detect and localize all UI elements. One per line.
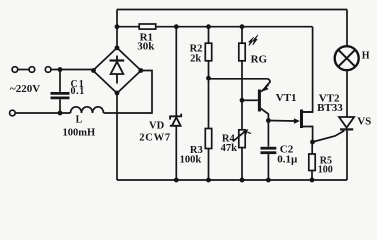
label VT1 bbox=[276, 92, 297, 104]
wire: bridge top to top rail bbox=[116, 10, 118, 48]
unijunction transistor VT2 bbox=[300, 110, 313, 143]
svg-text:BT33: BT33 bbox=[317, 102, 343, 114]
node: bridge left corner bbox=[91, 68, 96, 73]
svg-text:100k: 100k bbox=[180, 154, 202, 165]
node: R5 bottom junction bbox=[310, 178, 315, 183]
svg-text:0.1µ: 0.1µ bbox=[277, 153, 298, 165]
node: R2 top junction bbox=[206, 24, 211, 29]
label R5 value bbox=[318, 156, 333, 176]
wire: R1 regulated row bbox=[117, 26, 313, 28]
capacitor C2 bbox=[261, 148, 277, 180]
wire: upper AC input to bridge left corner bbox=[51, 69, 94, 71]
label L value bbox=[63, 115, 96, 139]
potentiometer R4 bbox=[239, 130, 245, 148]
wire: bridge bottom to ground rail bbox=[116, 93, 118, 180]
svg-text:VD: VD bbox=[149, 120, 165, 131]
photoresistor RG bbox=[239, 43, 245, 61]
svg-text:RG: RG bbox=[251, 54, 268, 66]
node: R4 bottom junction bbox=[240, 178, 245, 183]
resistor R3 bbox=[205, 129, 211, 149]
resistor R2 bbox=[205, 43, 211, 61]
node: R1 left junction on row bbox=[115, 24, 120, 29]
wire: row down to VT2 base B2 bbox=[302, 27, 313, 112]
lower AC terminal circle bbox=[10, 110, 16, 116]
label C1 value bbox=[71, 79, 85, 97]
svg-text:100: 100 bbox=[318, 164, 333, 175]
wire: RG/R4 branch vertical bbox=[241, 27, 243, 180]
svg-text:47k: 47k bbox=[221, 143, 238, 154]
VT2 emitter arrowhead bbox=[294, 118, 300, 123]
node: RG top junction bbox=[240, 24, 245, 29]
label H bbox=[362, 50, 370, 61]
svg-text:VS: VS bbox=[357, 115, 371, 127]
node: C1 upper junction bbox=[58, 67, 63, 72]
R4 wiper arrow bbox=[233, 129, 251, 142]
wire: zener branch vertical bbox=[175, 27, 177, 180]
resistor R5 bbox=[309, 142, 315, 180]
label R4 value bbox=[221, 133, 238, 153]
light arrows on RG bbox=[249, 35, 258, 46]
node: R2-R3 junction bbox=[206, 76, 211, 81]
lamp H bbox=[335, 46, 359, 70]
node: VT1 collector / C2 junction bbox=[266, 118, 271, 123]
wire: lower AC input to inductor bbox=[15, 112, 70, 114]
node: bridge top corner bbox=[115, 45, 120, 50]
bridge diode symbol bbox=[110, 56, 125, 84]
wire: top rail down to lamp H bbox=[346, 10, 348, 47]
svg-text:VT1: VT1 bbox=[276, 92, 297, 104]
capacitor C1 bbox=[51, 70, 70, 114]
wire: top rail bbox=[117, 9, 347, 11]
svg-text:~220V: ~220V bbox=[10, 83, 40, 95]
label R2 value bbox=[190, 43, 203, 64]
node: RG bottom / VT1 base junction bbox=[240, 98, 245, 103]
svg-text:30k: 30k bbox=[137, 41, 155, 53]
node: zener bottom junction bbox=[174, 178, 179, 183]
wire: inductor to bridge right corner bbox=[104, 71, 153, 114]
wire: VT1 collector to VT2 emitter bbox=[268, 120, 294, 123]
label ~220V bbox=[10, 83, 40, 95]
node: zener top junction bbox=[174, 24, 179, 29]
wire: gate to VS bbox=[313, 131, 345, 142]
svg-text:L: L bbox=[76, 115, 83, 126]
svg-text:2CW7: 2CW7 bbox=[139, 132, 171, 143]
node: C1 lower junction bbox=[58, 111, 63, 116]
thyristor VS bbox=[339, 117, 354, 129]
label R1 value bbox=[137, 32, 155, 53]
label VD value bbox=[139, 120, 171, 143]
label C2 value bbox=[277, 144, 298, 166]
node: bridge right corner bbox=[138, 68, 143, 73]
wire: R2/R3 branch vertical bbox=[208, 27, 210, 180]
label VT2 value bbox=[317, 93, 343, 115]
label RG bbox=[251, 54, 268, 66]
svg-text:H: H bbox=[362, 50, 370, 61]
node: bridge bottom corner bbox=[115, 91, 120, 96]
wire: R2-R3 node to VT1 emitter bbox=[209, 79, 271, 87]
wire: lamp to VS anode bbox=[346, 70, 348, 117]
transistor VT1 (PNP) bbox=[242, 85, 269, 147]
svg-text:0.1: 0.1 bbox=[71, 86, 85, 97]
bridge rectifier diamond bbox=[93, 48, 141, 93]
inductor L bbox=[71, 107, 104, 113]
label VS bbox=[357, 115, 371, 127]
AC terminal circles (plug) bbox=[12, 67, 18, 73]
svg-text:2k: 2k bbox=[190, 53, 201, 64]
svg-text:100mH: 100mH bbox=[63, 128, 96, 139]
label R3 value bbox=[180, 145, 203, 165]
zener diode VD bbox=[170, 114, 181, 126]
wire: bottom ground rail bbox=[117, 179, 347, 181]
node: R3 bottom junction bbox=[206, 178, 211, 183]
wire: between plug contacts bbox=[18, 69, 29, 71]
node: C2 bottom junction bbox=[266, 178, 271, 183]
resistor R1 bbox=[139, 24, 156, 29]
wire: VS cathode to bottom rail bbox=[346, 131, 348, 181]
node: VT2 B1 / R5 / gate junction bbox=[310, 140, 315, 145]
